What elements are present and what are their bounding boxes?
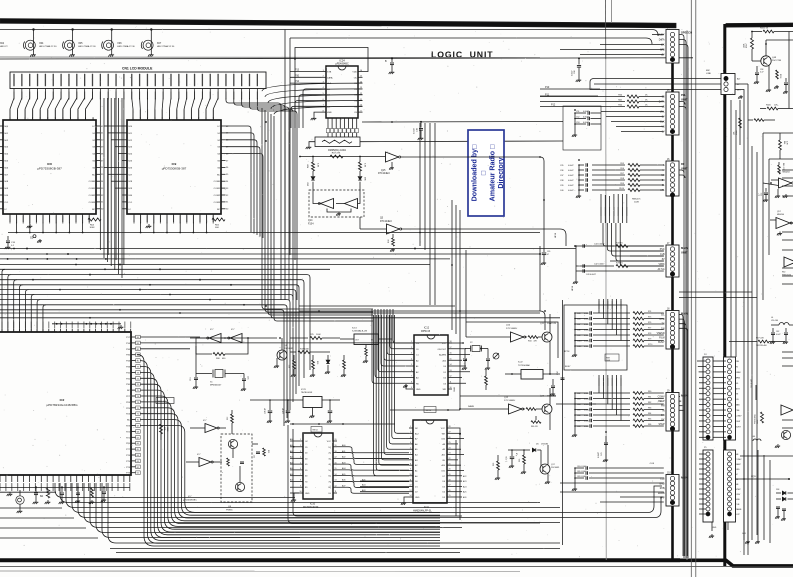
svg-text:µPD4069UBC: µPD4069UBC	[183, 499, 197, 501]
svg-text:0.0047: 0.0047	[583, 117, 589, 119]
transistor Q11 2SA1576	[542, 332, 552, 342]
resistor R710 row	[633, 345, 644, 348]
junction dot	[46, 258, 48, 260]
wire vertical p-label bundle above J8	[598, 299, 600, 313]
svg-text:R86: R86	[648, 424, 651, 426]
wire RM05 right to PLL cap box	[360, 140, 563, 143]
connector CN1 pin 21	[170, 74, 171, 87]
svg-text:COM1: COM1	[214, 188, 221, 190]
svg-text:8: 8	[410, 463, 411, 465]
resistor R80 row	[633, 392, 644, 395]
svg-text:C67: C67	[577, 420, 580, 422]
svg-text:R84: R84	[648, 413, 651, 415]
wire CN1 right arc to bundle	[242, 98, 289, 300]
box RM06 100K	[156, 398, 174, 404]
wire CN1 to IC9 pin 8	[184, 98, 187, 120]
IC9 left pin row 11	[123, 201, 128, 203]
wire CN1 to IC9 pin 10	[199, 98, 203, 120]
wire horizontal bus line 7 y=284.8	[0, 285, 299, 386]
wire channel risers to conn7	[648, 486, 662, 513]
IC8 bottom pin	[16, 214, 18, 222]
IC24 right pin 14	[358, 82, 363, 84]
IC2 bottom pin	[88, 475, 90, 482]
wire IC2 right pin fan down	[140, 367, 440, 541]
svg-text:9: 9	[411, 387, 412, 389]
IC9 left pin row 1	[123, 132, 128, 134]
svg-text:4: 4	[323, 87, 324, 89]
wire IC24 outputs arcs	[262, 83, 363, 91]
resistor R558 small	[776, 70, 779, 79]
svg-text:NC: NC	[127, 390, 131, 392]
diode D05	[359, 171, 361, 176]
svg-text:10JB: 10JB	[634, 201, 639, 203]
IC9 right pin row 6	[221, 166, 226, 168]
svg-text:18: 18	[449, 479, 451, 481]
wire IC9 right pin routing	[226, 147, 261, 237]
connector J8	[666, 311, 679, 350]
wire IC bottom pin to bus	[153, 222, 155, 233]
svg-text:ALARM: ALARM	[439, 354, 446, 357]
wire between IC8/IC9 columns	[108, 173, 123, 175]
resistor network R04 100K	[88, 218, 101, 221]
svg-text:LC: LC	[128, 209, 131, 211]
svg-text:P12: P12	[551, 104, 556, 107]
IC9 bottom pin	[186, 214, 188, 222]
IC9 left pin row 6	[123, 166, 128, 168]
resistor R46 2.7K vertical page2	[778, 162, 780, 165]
svg-text:STB: STB	[327, 72, 332, 74]
svg-text:3: 3	[410, 437, 411, 439]
connector CN1 pin 9	[76, 74, 77, 87]
wire CN1 to IC9 pin 12	[213, 98, 218, 120]
junction dot scatter	[247, 337, 249, 339]
junction dot scatter	[451, 264, 453, 266]
svg-text:61: 61	[137, 473, 139, 475]
svg-text:CLB: CLB	[660, 479, 665, 481]
svg-text:X05: X05	[78, 42, 83, 45]
IC2 top pin tick	[65, 329, 67, 332]
svg-text:R46 470: R46 470	[531, 426, 538, 428]
svg-text:R05: R05	[163, 427, 165, 430]
IC2 bottom pin	[76, 475, 78, 482]
IC24 uPD4094BC shift register	[326, 66, 358, 118]
connector CN1 pin 29	[233, 74, 234, 87]
wire CN1 to IC9 pin 9	[191, 98, 194, 120]
IC8 bottom pin	[49, 214, 51, 222]
wire IC9 right pin routing	[226, 140, 258, 235]
svg-text:OC: OC	[354, 77, 358, 79]
svg-text:C13: C13	[190, 378, 192, 381]
resistor R81 row	[633, 397, 644, 400]
IC24 left pin 5	[322, 94, 327, 96]
wire vertical strand between IC8 and IC9	[110, 98, 112, 266]
wire CN1 to IC9 pin 4	[154, 98, 156, 120]
IC9 left pin row 10	[123, 194, 128, 196]
capacitor C49 0.0047 row	[575, 334, 588, 336]
IC8 right pin row 7	[96, 173, 101, 175]
IC9 right pin row 11	[221, 201, 226, 203]
wire WTB row	[735, 478, 789, 480]
diode D04	[312, 171, 314, 176]
wire row above IC2 with pullup dots y=323.8	[52, 323, 121, 325]
svg-text:0.0047: 0.0047	[584, 329, 590, 331]
svg-text:R37 100K: R37 100K	[300, 349, 310, 351]
wire IC24 bottom pin 5 to RM05	[348, 118, 350, 129]
svg-text:BEEP: BEEP	[736, 464, 742, 466]
svg-text:8: 8	[300, 480, 301, 482]
resistor R86 row	[633, 425, 644, 428]
svg-text:0.0047: 0.0047	[583, 122, 589, 124]
svg-text:28: 28	[449, 426, 451, 428]
wire mesh to IC2 top pin	[25, 290, 28, 332]
IC9 right pin row 3	[221, 146, 226, 148]
svg-text:C65: C65	[577, 409, 580, 411]
IC top pin tick	[190, 117, 192, 120]
wire IC2 right pin fan down	[140, 402, 440, 524]
svg-text:R74: R74	[648, 311, 651, 313]
capacitor C63 page2	[785, 328, 787, 332]
svg-text:TK75S05AF: TK75S05AF	[518, 364, 531, 367]
resistor R37 100K	[290, 351, 296, 353]
svg-text:PWM1: PWM1	[226, 509, 233, 511]
svg-text:A05: A05	[362, 478, 365, 481]
svg-text:L04: L04	[752, 436, 755, 438]
capacitor C12 bottom-left	[61, 486, 63, 492]
IC2 right pin row 6	[131, 371, 136, 373]
IC24 left pin 8	[322, 111, 327, 113]
junction dot	[105, 258, 107, 260]
svg-text:C46: C46	[577, 318, 580, 320]
junction dot scatter	[459, 310, 461, 312]
capacitor C66 0.0047 row	[575, 414, 588, 416]
svg-text:7: 7	[300, 474, 301, 476]
IC2 top pin tick	[124, 329, 126, 332]
connector J5 PLL UNIT	[666, 92, 679, 135]
svg-text:R82: R82	[648, 402, 651, 404]
wire horizontal bus line 2 y=258.9	[0, 258, 450, 260]
connector CN1 pin 7	[60, 74, 61, 87]
svg-text:RM06 100K: RM06 100K	[158, 401, 168, 403]
svg-text:C33: C33	[506, 457, 508, 460]
connector CN1 pin 32	[257, 74, 258, 87]
svg-text:LC: LC	[4, 209, 7, 211]
connector CN1 pin 17	[139, 74, 140, 87]
wire RF row 4 with resistor R59	[592, 184, 625, 186]
capacitor C19 30P	[465, 348, 471, 350]
IC24 right pin 10	[358, 105, 363, 107]
wire RAMB row to J9	[556, 403, 596, 405]
ground RM05 left	[309, 142, 315, 145]
svg-text:C411: C411	[577, 346, 581, 348]
capacitor C80 0.0047 row	[575, 467, 584, 469]
IC22 TK75S05AF regulator	[521, 370, 543, 380]
svg-text:DATA: DATA	[659, 101, 665, 104]
page2 right-edge stub wires	[782, 169, 793, 171]
wire CN1 to IC8 pin 8	[63, 98, 69, 120]
svg-text:0.0047: 0.0047	[584, 313, 590, 315]
connector CN1 pin 2	[21, 74, 22, 87]
small box RM9 100K	[605, 354, 619, 361]
wire horizontal bus line 1 y=254.0	[0, 253, 540, 255]
transistor Q17 2SC4081	[540, 464, 550, 474]
svg-text:NC: NC	[127, 420, 131, 422]
svg-text:A03: A03	[362, 489, 365, 492]
svg-text:AF SG: AF SG	[658, 268, 665, 271]
svg-text:HF20: HF20	[572, 285, 574, 291]
svg-text:GND: GND	[416, 389, 421, 391]
IC9 bottom pin	[153, 214, 155, 222]
junction dot scatter	[574, 245, 576, 247]
svg-text:MB4204: MB4204	[783, 172, 790, 174]
resistor R36 vertical with ground	[312, 355, 314, 360]
svg-text:MTR: MTR	[736, 388, 741, 390]
svg-text:63: 63	[137, 461, 139, 463]
svg-text:13: 13	[410, 490, 412, 492]
svg-text:2SA1576: 2SA1576	[547, 322, 557, 325]
connector J6 RF UNIT	[666, 161, 679, 196]
svg-text:RAMB: RAMB	[736, 508, 742, 511]
resistor R76 row	[633, 323, 644, 326]
wire vertical strand between IC8 and IC9	[107, 98, 109, 262]
wire between IC8/IC9 columns	[111, 180, 122, 182]
svg-text:18: 18	[450, 341, 452, 343]
svg-text:A07: A07	[342, 484, 345, 487]
IC9 left pin row 2	[123, 139, 128, 141]
wire - bottom border page2 (thick)	[680, 560, 793, 566]
transistor Q8a inside PWM box	[228, 439, 237, 448]
IC2 top pin tick	[30, 329, 32, 332]
svg-text:R558: R558	[779, 74, 781, 78]
IC top pin tick	[69, 117, 71, 120]
transistor Q6 2SC4081	[277, 350, 287, 360]
IC8 left pin row 3	[0, 146, 3, 148]
svg-text:C36: C36	[560, 170, 563, 172]
svg-text:84: 84	[137, 337, 139, 339]
svg-text:47: 47	[547, 254, 549, 256]
svg-text:A22: A22	[463, 475, 466, 478]
IC9 left pin row 12	[123, 208, 128, 210]
IC9 bottom pin	[192, 214, 194, 222]
wire rows into J10	[560, 482, 664, 484]
svg-text:SPEECH: SPEECH	[681, 31, 692, 35]
svg-text:3: 3	[661, 45, 662, 47]
IC top pin tick	[198, 117, 200, 120]
svg-text:LPV: LPV	[660, 498, 665, 500]
ground below opamp1	[777, 189, 779, 194]
IC top pin tick	[39, 117, 41, 120]
IC2 right pin row 22	[131, 466, 136, 468]
svg-text:69: 69	[137, 426, 139, 428]
grounds page2 bottom verticals	[757, 450, 759, 540]
IC top pin tick	[154, 117, 156, 120]
capacitor C20 30P	[482, 348, 489, 350]
wire vertical drops x=420-440 center	[419, 123, 421, 246]
wire between IC8/IC9 columns	[108, 132, 123, 134]
svg-text:3.3K: 3.3K	[317, 163, 319, 168]
svg-text:0.0047: 0.0047	[584, 420, 590, 422]
wire CN1 middle drop	[107, 98, 109, 255]
wire horizontal bus line 3 y=264.5	[0, 264, 430, 266]
svg-text:7: 7	[323, 105, 324, 107]
svg-text:19: 19	[449, 474, 451, 476]
svg-text:4: 4	[411, 358, 412, 360]
IC2 bottom pin	[0, 475, 1, 482]
svg-text:A23: A23	[463, 480, 466, 483]
svg-text:C48: C48	[577, 329, 580, 331]
svg-text:4: 4	[300, 457, 301, 459]
svg-text:HRV-72MA-Y2 30: HRV-72MA-Y2 30	[78, 45, 96, 48]
svg-text:0.0047: 0.0047	[583, 111, 589, 113]
svg-text:2: 2	[300, 445, 301, 447]
capacitor box for PLL C51-C53	[563, 106, 601, 150]
wire horizontal bus line 6 y=279.7	[0, 280, 304, 378]
wire horizontal bus line 10 y=299.6	[0, 300, 290, 410]
wire mesh to IC2 top pin	[14, 280, 17, 332]
wire IC24 bottom pin 0 to RM05	[327, 118, 329, 129]
IC2 top pin tick	[83, 329, 85, 332]
svg-text:83: 83	[137, 343, 139, 345]
svg-text:8: 8	[411, 381, 412, 383]
resistor R38 vertical	[343, 355, 345, 360]
wire thick vertical bus x=672.5	[671, 63, 674, 560]
svg-text:A00: A00	[342, 444, 345, 447]
svg-text:1Q: 1Q	[328, 447, 331, 449]
wire long verticals x=450-470	[451, 200, 453, 330]
inverter IC7c	[205, 424, 217, 433]
svg-text:A02: A02	[342, 456, 345, 459]
IC9 left pin row 5	[123, 160, 128, 162]
wire y=122 rail from IC24 to right	[362, 121, 563, 124]
wire second top rail y=38	[290, 38, 652, 44]
IC2 right pin row 7	[131, 377, 136, 379]
svg-text:C27: C27	[254, 455, 256, 458]
wire bottom channel line 1	[60, 483, 540, 503]
svg-text:0.0047: 0.0047	[584, 318, 590, 320]
connector CN1 pin 6	[53, 74, 54, 87]
IC top pin tick	[85, 117, 87, 120]
IC2 right pin row 13	[131, 413, 136, 415]
svg-text:A05: A05	[342, 473, 345, 476]
svg-text:COM0: COM0	[89, 181, 96, 183]
svg-text:100K: 100K	[89, 227, 95, 229]
svg-text:68: 68	[137, 431, 139, 433]
svg-text:17: 17	[449, 485, 451, 487]
IC8 right pin row 11	[96, 201, 101, 203]
IC2 right pin row 17	[131, 436, 136, 438]
wire IC bottom pin to bus	[16, 222, 18, 233]
IC24 right pin 12	[358, 94, 363, 96]
svg-text:21: 21	[449, 463, 451, 465]
capacitor C16 0.1 near left edge	[7, 236, 9, 240]
wire bottom-left row y=492	[0, 491, 56, 493]
wire CN1 to IC9 pin 2	[139, 98, 142, 120]
wire long verticals page2	[730, 100, 732, 357]
IC9 bottom pin	[166, 214, 168, 222]
svg-text:BUSY: BUSY	[565, 366, 571, 368]
wire horizontal bus line 9 y=294.5	[0, 295, 293, 403]
capacitor C22 bottom-left extra	[77, 487, 79, 492]
IC2 top pin tick	[112, 329, 114, 332]
wire CN1 to IC9 pin 6	[170, 98, 172, 120]
IC2 top pin tick	[36, 329, 38, 332]
wire IC bottom pin to bus	[179, 222, 181, 233]
IC top pin tick	[205, 117, 207, 120]
svg-text:X06: X06	[117, 42, 122, 45]
IC2 right pin row 0	[131, 336, 136, 338]
IC9 bottom pin	[173, 214, 175, 222]
wire - page 1 top border (thick)	[0, 19, 676, 28]
svg-text:R33: R33	[289, 365, 291, 368]
svg-text:0.0047: 0.0047	[568, 190, 574, 192]
svg-text:DATA: DATA	[327, 76, 333, 79]
junction dot scatter	[391, 121, 393, 123]
page2 small resistor x=757 y=120	[754, 119, 764, 122]
wire - page gap fold lines	[690, 0, 692, 577]
svg-text:MB4204: MB4204	[777, 214, 784, 216]
svg-text:5Q: 5Q	[328, 470, 331, 472]
wire bottom channel line 4	[78, 483, 655, 518]
svg-text:22: 22	[449, 458, 451, 460]
IC2 right pin row 23	[131, 472, 136, 474]
wire CN1 right arc to bundle	[226, 98, 281, 300]
capacitor C42 row	[576, 265, 614, 267]
wire mesh to IC2 top pin	[20, 285, 23, 332]
IC8 bottom pin	[42, 214, 44, 222]
svg-text:9: 9	[300, 485, 301, 487]
svg-text:CL/B: CL/B	[650, 463, 655, 465]
connector CN1 pin 8	[68, 74, 69, 87]
wire arcs from page1 J8/J9 to fold	[679, 315, 683, 557]
IC9 bottom pin	[146, 214, 148, 222]
IC9 right pin row 1	[221, 132, 226, 134]
svg-text:ABB: ABB	[736, 404, 741, 407]
svg-text:7Q: 7Q	[328, 481, 331, 483]
wire between IC8/IC9 columns	[121, 160, 124, 162]
svg-text:1: 1	[661, 35, 662, 37]
svg-text:20: 20	[335, 439, 337, 441]
wire RF row 0 with resistor R55	[592, 164, 625, 166]
resistor R82 row	[633, 403, 644, 406]
IC2 bottom pin	[34, 475, 36, 482]
svg-text:64: 64	[137, 455, 139, 457]
svg-text:6Q: 6Q	[328, 476, 331, 478]
svg-text:71: 71	[137, 414, 139, 416]
wire CN1 middle drop	[115, 98, 117, 260]
svg-text:RP5C15: RP5C15	[421, 330, 431, 333]
wire IC11 left pins from bundle	[394, 315, 409, 433]
IC2 right pin row 5	[131, 366, 136, 368]
ground MAIN caps	[575, 246, 577, 280]
IC8 right pin row 2	[96, 139, 101, 141]
capacitor C62 0.0047 row	[575, 392, 588, 394]
wire IC23 input from left	[250, 399, 288, 401]
svg-text:R710: R710	[648, 344, 652, 346]
IC8 right pin row 8	[96, 180, 101, 182]
IC8 left pin row 10	[0, 194, 3, 196]
svg-text:0.0047: 0.0047	[568, 170, 574, 172]
svg-text:C62: C62	[776, 331, 779, 333]
capacitor C18 0.0047	[420, 122, 422, 128]
wire IC2 right pin fan down	[140, 396, 440, 526]
IC2 bottom pin	[105, 475, 107, 482]
svg-text:MAIN: MAIN	[681, 246, 688, 250]
capacitor C47 0.0047 row	[575, 323, 588, 325]
buffer Q14a inside dashed box	[321, 199, 334, 209]
svg-text:R79: R79	[648, 339, 651, 341]
IC2 bottom pin	[70, 475, 72, 482]
capacitor C33 47u 16V	[511, 450, 513, 456]
capacitor C68 0.0047 row	[575, 425, 588, 427]
